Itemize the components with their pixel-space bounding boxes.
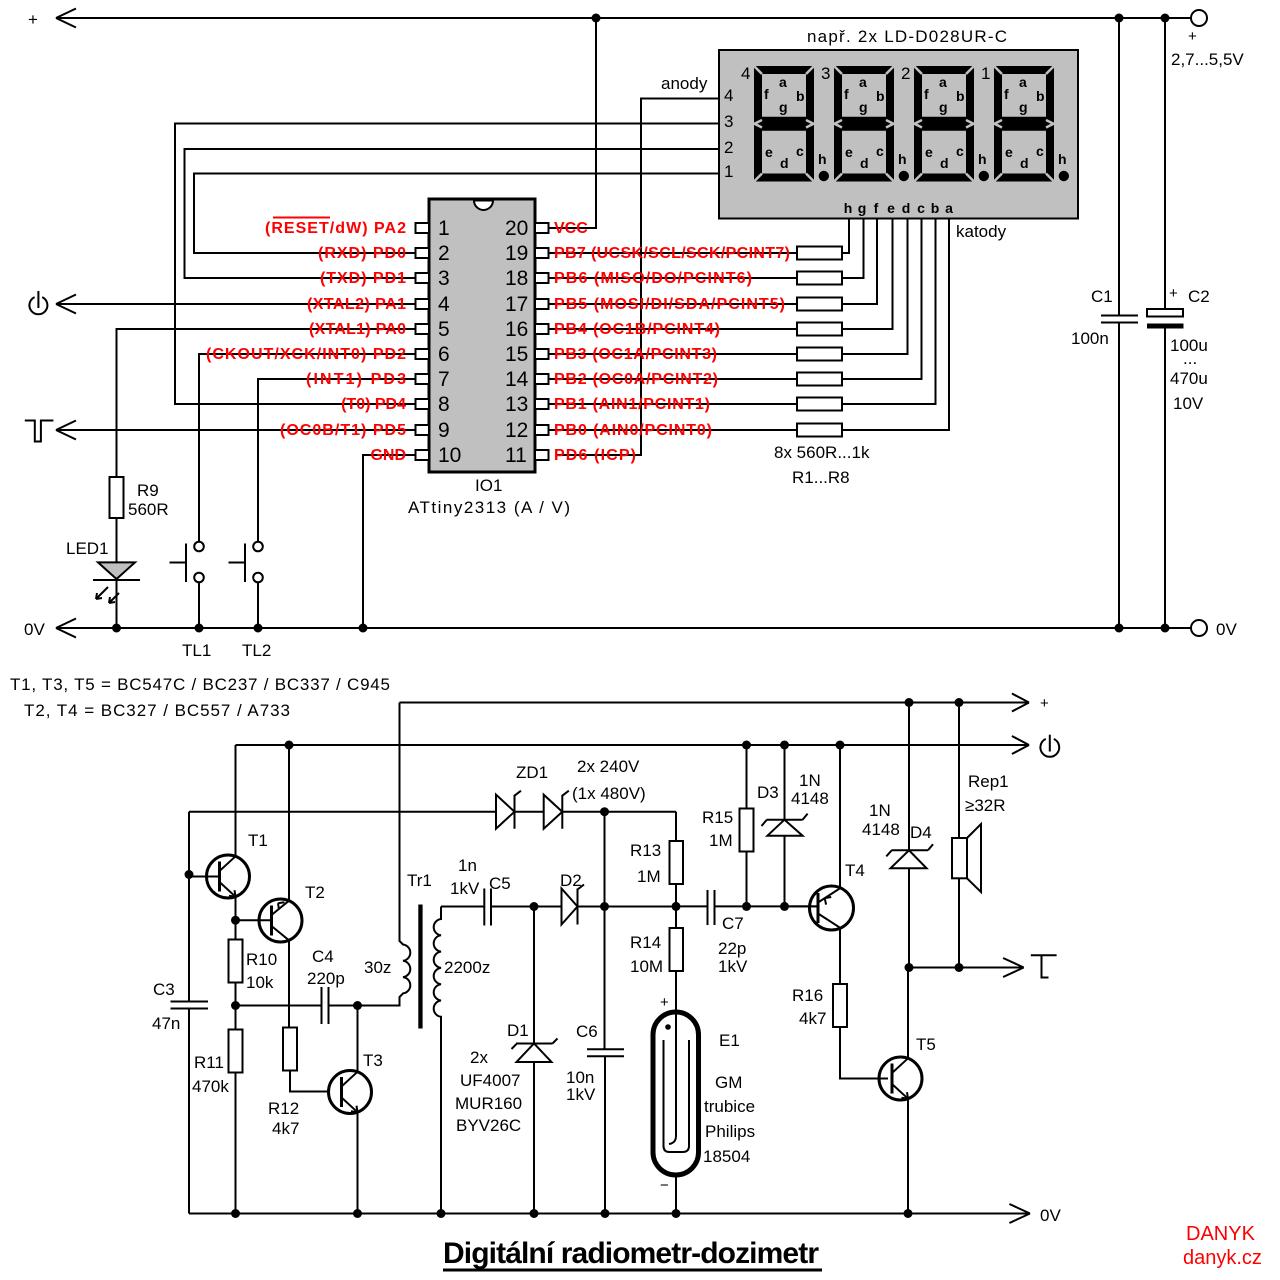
svg-text:h: h <box>844 200 853 216</box>
svg-text:22p: 22p <box>718 939 746 958</box>
svg-text:4148: 4148 <box>862 820 900 839</box>
svg-text:C2: C2 <box>1188 287 1210 306</box>
wire T3 emitter <box>357 1112 359 1214</box>
svg-text:+: + <box>1169 285 1178 302</box>
GM tube E1 <box>653 971 755 1214</box>
wire ZD1 node down <box>604 812 606 907</box>
top positive rail <box>28 9 1191 30</box>
resistor R16 <box>792 984 888 1079</box>
junction D1 bottom <box>530 1209 539 1218</box>
svg-text:b: b <box>876 88 885 104</box>
red pin label 11 <box>554 447 636 464</box>
svg-text:trubice: trubice <box>704 1097 755 1116</box>
standby symbol <box>29 291 47 314</box>
red pin label 3 <box>320 270 406 287</box>
7seg digit 2 <box>901 64 989 182</box>
svg-text:PB5 (MOSI/DI/SDA/PCINT5): PB5 (MOSI/DI/SDA/PCINT5) <box>554 296 785 313</box>
resistor R13 <box>630 812 683 907</box>
svg-text:+: + <box>1188 28 1197 45</box>
transistor T1 <box>189 831 268 898</box>
svg-text:10: 10 <box>438 444 461 467</box>
7seg digit 3 <box>821 64 909 182</box>
resistor R14 <box>630 906 683 1012</box>
svg-text:PD6 (ICP): PD6 (ICP) <box>554 447 636 464</box>
diode D2 <box>560 871 605 925</box>
svg-text:1n: 1n <box>458 856 477 875</box>
svg-text:LED1: LED1 <box>66 539 109 558</box>
svg-text:18: 18 <box>505 267 528 290</box>
junction C6 bottom <box>601 1209 610 1218</box>
svg-text:e: e <box>765 144 773 160</box>
zener ZD1 <box>496 757 646 829</box>
resistor R11 <box>192 1006 243 1214</box>
wire T4 collector to R16 <box>839 928 841 985</box>
svg-text:12: 12 <box>505 419 528 442</box>
resistor R10 <box>229 920 278 1005</box>
red pin label 8 <box>341 396 406 413</box>
svg-text:C4: C4 <box>312 947 334 966</box>
junction R10 bottom <box>231 1001 240 1010</box>
junction T3 emitter bottom <box>353 1209 362 1218</box>
svg-text:f: f <box>844 86 849 102</box>
svg-text:b: b <box>1036 88 1045 104</box>
svg-text:T4: T4 <box>845 861 865 880</box>
svg-text:PB2 (OC0A/PCINT2): PB2 (OC0A/PCINT2) <box>554 371 718 388</box>
svg-text:h: h <box>1058 151 1067 167</box>
junction Tr secondary bottom <box>437 1209 446 1218</box>
wire T4 emitter to rail <box>839 745 841 889</box>
transistor T5 <box>879 1035 936 1100</box>
svg-text:2x: 2x <box>470 1048 488 1067</box>
svg-text:MUR160: MUR160 <box>455 1094 522 1113</box>
junction TL2 0V <box>254 624 263 633</box>
svg-text:b: b <box>931 200 940 216</box>
svg-text:Rep1: Rep1 <box>968 772 1009 791</box>
svg-text:220p: 220p <box>307 969 345 988</box>
svg-text:3: 3 <box>438 267 450 290</box>
svg-text:470u: 470u <box>1170 369 1208 388</box>
wire T5 emitter down <box>907 1099 909 1214</box>
svg-text:R10: R10 <box>246 950 277 969</box>
red pin label 12 <box>554 422 712 439</box>
katody label <box>956 222 1007 241</box>
svg-text:h: h <box>818 151 827 167</box>
svg-text:4: 4 <box>741 64 750 83</box>
svg-text:T2, T4 = BC327 / BC557 / A733: T2, T4 = BC327 / BC557 / A733 <box>24 701 290 720</box>
junction T1 emitter T2 base <box>231 916 240 925</box>
svg-text:GM: GM <box>715 1073 742 1092</box>
svg-text:danyk.cz: danyk.cz <box>1183 1247 1262 1269</box>
junction T1 base <box>185 870 194 879</box>
svg-text:4k7: 4k7 <box>272 1119 299 1138</box>
7seg digit 1 <box>981 64 1069 182</box>
wire secondary to C5 <box>441 906 484 908</box>
svg-text:3: 3 <box>821 64 830 83</box>
red pin label 17 <box>554 296 785 313</box>
transistor T2 <box>236 883 325 942</box>
resistor R6 <box>548 219 922 386</box>
red pin label 2 <box>318 245 406 262</box>
svg-text:a: a <box>945 200 953 216</box>
svg-text:DANYK: DANYK <box>1186 1223 1256 1245</box>
capacitor C7 <box>708 890 748 976</box>
diode D1 <box>455 907 558 1214</box>
zener D4 <box>862 703 933 968</box>
wire anody 2 <box>185 149 720 278</box>
svg-text:2: 2 <box>724 138 733 157</box>
red pin label 1 with RESET overline <box>265 218 406 238</box>
svg-text:(INT1) PD3: (INT1) PD3 <box>306 371 406 388</box>
wire anody 4 <box>556 99 719 456</box>
svg-text:C6: C6 <box>576 1022 598 1041</box>
wire anody 3 <box>175 124 719 405</box>
svg-text:e: e <box>1005 144 1013 160</box>
svg-text:16: 16 <box>505 318 528 341</box>
svg-text:R12: R12 <box>268 1099 299 1118</box>
IC IO1 body <box>408 199 570 517</box>
svg-text:(XTAL2) PA1: (XTAL2) PA1 <box>307 296 406 313</box>
junction GND 0V <box>359 624 368 633</box>
pulse symbol right <box>1031 955 1057 977</box>
svg-text:5: 5 <box>438 318 450 341</box>
resistor R5 <box>548 219 908 361</box>
svg-text:1kV: 1kV <box>718 957 748 976</box>
svg-text:17: 17 <box>505 293 528 316</box>
svg-text:h: h <box>978 151 987 167</box>
svg-text:20: 20 <box>505 217 528 240</box>
svg-text:10M: 10M <box>630 957 663 976</box>
svg-text:IO1: IO1 <box>475 476 502 495</box>
wire T2 collector to R12 <box>288 940 290 1028</box>
svg-text:11: 11 <box>505 444 527 467</box>
svg-text:R11: R11 <box>194 1053 224 1072</box>
svg-text:1N: 1N <box>799 771 821 790</box>
svg-text:ZD1: ZD1 <box>516 763 548 782</box>
svg-text:R1...R8: R1...R8 <box>792 468 850 487</box>
svg-text:VCC: VCC <box>554 220 588 237</box>
wire VCC pin20 to top rail <box>548 18 596 228</box>
wire D2 node to R13 node <box>605 906 677 908</box>
svg-text:6: 6 <box>438 343 450 366</box>
resistor R15 <box>702 745 754 906</box>
wire pin10 GND to 0V <box>363 455 416 628</box>
svg-text:PB4 (OC1B/PCINT4): PB4 (OC1B/PCINT4) <box>554 321 720 338</box>
svg-text:c: c <box>796 143 804 159</box>
svg-text:−: − <box>660 1177 669 1194</box>
red pin label 6 <box>206 346 406 363</box>
resistor R9 <box>110 477 169 519</box>
svg-text:...: ... <box>1183 349 1197 368</box>
junction speaker output <box>955 963 964 972</box>
transistor equivalents text <box>10 675 390 720</box>
bottom + rail <box>400 694 1050 713</box>
svg-text:f: f <box>924 86 929 102</box>
red pin label 13 <box>554 396 710 413</box>
svg-text:1kV: 1kV <box>450 879 480 898</box>
svg-text:10V: 10V <box>1173 394 1204 413</box>
svg-text:1M: 1M <box>709 831 733 850</box>
svg-text:PB0 (AIN0/PCINT0): PB0 (AIN0/PCINT0) <box>554 422 712 439</box>
bottom 0V rail <box>189 1204 1061 1225</box>
svg-text:8: 8 <box>438 393 450 416</box>
svg-text:PB1 (AIN1/PCINT1): PB1 (AIN1/PCINT1) <box>554 396 710 413</box>
svg-text:C1: C1 <box>1091 287 1113 306</box>
svg-text:T1, T3, T5 = BC547C / BC237 /: T1, T3, T5 = BC547C / BC237 / BC337 / C9… <box>10 675 390 694</box>
display module LD-D028UR-C <box>719 50 1078 219</box>
wire pin7 to TL2 <box>258 379 416 542</box>
wire T1 collector to rail <box>235 745 237 856</box>
svg-text:0V: 0V <box>1040 1206 1061 1225</box>
resistor R3 <box>548 219 877 311</box>
svg-text:c: c <box>1036 143 1044 159</box>
red pin label 18 <box>554 270 752 287</box>
svg-text:h: h <box>898 151 907 167</box>
svg-text:např. 2x LD-D028UR-C: např. 2x LD-D028UR-C <box>807 27 1007 46</box>
wire T2 emitter to rail <box>288 745 290 901</box>
svg-text:15: 15 <box>505 343 528 366</box>
svg-text:R13: R13 <box>630 841 661 860</box>
svg-text:g: g <box>858 200 867 216</box>
junction C4 right <box>353 1001 362 1010</box>
junction T2 collector rail <box>285 741 294 750</box>
junction VCC on top rail <box>592 14 601 23</box>
svg-text:4: 4 <box>438 293 450 316</box>
svg-text:18504: 18504 <box>703 1147 750 1166</box>
svg-text:7: 7 <box>438 368 450 391</box>
junction C1 top rail <box>1115 14 1124 23</box>
svg-text:Tr1: Tr1 <box>407 871 432 890</box>
svg-text:T2: T2 <box>305 883 325 902</box>
svg-text:9: 9 <box>438 419 450 442</box>
svg-text:D4: D4 <box>910 823 932 842</box>
LED1 <box>66 518 140 628</box>
red pin label 9 <box>280 422 406 439</box>
svg-text:d: d <box>940 155 949 171</box>
junction R11 bottom <box>231 1209 240 1218</box>
red pin label 15 <box>554 346 717 363</box>
red pin label 7 <box>306 371 406 388</box>
svg-text:470k: 470k <box>192 1077 229 1096</box>
wire pin6 to TL1 <box>199 354 416 542</box>
output pulse row <box>909 958 1024 977</box>
red pin label 19 <box>554 245 790 262</box>
junction C2 top rail <box>1161 14 1170 23</box>
svg-text:a: a <box>859 74 867 90</box>
svg-text:e: e <box>887 200 895 216</box>
zener D3 <box>757 745 829 906</box>
svg-text:R14: R14 <box>630 933 661 952</box>
svg-text:PB7 (UCSK/SCL/SCK/PCINT7): PB7 (UCSK/SCL/SCK/PCINT7) <box>554 245 790 262</box>
svg-text:PB3 (OC1A/PCINT3): PB3 (OC1A/PCINT3) <box>554 346 717 363</box>
junction T4 emitter rail <box>836 741 845 750</box>
svg-text:c: c <box>917 200 925 216</box>
wire pin9 T1 output to pulse arrow <box>56 421 416 440</box>
svg-text:ATtiny2313 (A / V): ATtiny2313 (A / V) <box>408 498 570 517</box>
svg-text:E1: E1 <box>719 1031 740 1050</box>
svg-text:R16: R16 <box>792 986 823 1005</box>
svg-text:+: + <box>1040 695 1049 712</box>
svg-text:anody: anody <box>661 74 708 93</box>
wire T5 collector up <box>907 968 909 1059</box>
transistor T4 <box>785 861 865 930</box>
junction T5 emitter bottom <box>904 1209 913 1218</box>
svg-text:8x 560R...1k: 8x 560R...1k <box>774 443 870 462</box>
svg-text:katody: katody <box>956 222 1007 241</box>
svg-text:f: f <box>764 86 769 102</box>
svg-text:4148: 4148 <box>791 789 829 808</box>
HV line <box>189 811 676 813</box>
red pin label 20 <box>554 220 588 237</box>
svg-text:b: b <box>796 88 805 104</box>
red pin label 14 <box>554 371 718 388</box>
svg-text:c: c <box>956 143 964 159</box>
svg-text:1: 1 <box>438 217 450 240</box>
resistor R8 <box>548 219 949 437</box>
junction speaker + rail <box>955 698 964 707</box>
svg-text:d: d <box>860 155 869 171</box>
svg-text:(OC0B/T1) PD5: (OC0B/T1) PD5 <box>280 422 406 439</box>
svg-text:(RESET/dW) PA2: (RESET/dW) PA2 <box>265 220 406 237</box>
pulse symbol left <box>25 421 54 442</box>
svg-text:0V: 0V <box>1216 620 1237 639</box>
svg-text:PB6 (MISO/DO/PCINT6): PB6 (MISO/DO/PCINT6) <box>554 270 752 287</box>
svg-text:D2: D2 <box>560 871 582 890</box>
capacitor C2 electrolytic <box>1147 18 1210 628</box>
junction C7 R15 <box>742 902 751 911</box>
red pin label 4 <box>307 296 406 313</box>
svg-text:a: a <box>1019 74 1027 90</box>
junction E1 bottom <box>672 1209 681 1218</box>
capacitor C3 <box>152 980 208 1214</box>
junction ZD1 output <box>600 807 609 816</box>
svg-text:Digitální radiometr-dozimetr: Digitální radiometr-dozimetr <box>443 1237 819 1270</box>
resistor network label <box>774 443 870 487</box>
svg-text:(1x 480V): (1x 480V) <box>572 784 646 803</box>
svg-text:4k7: 4k7 <box>799 1009 826 1028</box>
junction D2 output <box>600 902 609 911</box>
svg-text:b: b <box>956 88 965 104</box>
svg-text:(RXD) PD0: (RXD) PD0 <box>318 245 406 262</box>
svg-text:47n: 47n <box>152 1014 180 1033</box>
0V rail top section <box>24 619 1191 640</box>
terminal + supply <box>1171 10 1244 69</box>
svg-text:1: 1 <box>724 162 733 181</box>
svg-text:2200z: 2200z <box>444 958 490 977</box>
svg-text:R15: R15 <box>702 808 733 827</box>
svg-text:+: + <box>660 994 669 1011</box>
svg-text:e: e <box>845 144 853 160</box>
bottom standby rail <box>236 736 1030 754</box>
resistor R4 <box>548 219 893 336</box>
svg-text:Philips: Philips <box>705 1122 755 1141</box>
resistor R12 <box>268 1028 329 1139</box>
svg-text:1N: 1N <box>869 801 891 820</box>
svg-text:2: 2 <box>901 64 910 83</box>
resistor R7 <box>548 219 936 411</box>
resistor R2 <box>548 219 864 285</box>
svg-text:g: g <box>859 99 868 115</box>
capacitor C1 <box>1071 18 1138 628</box>
wire D2 node down to C6 <box>604 907 606 1050</box>
title <box>443 1237 822 1270</box>
svg-text:g: g <box>939 99 948 115</box>
standby symbol bottom <box>1040 735 1059 757</box>
display anode pin numbers <box>724 86 733 181</box>
svg-text:BYV26C: BYV26C <box>456 1116 521 1135</box>
svg-text:13: 13 <box>505 393 528 416</box>
wire pin4 XTAL2 to standby arrow <box>56 295 416 314</box>
capacitor C5 <box>450 856 534 926</box>
author <box>1183 1223 1262 1269</box>
svg-text:≥32R: ≥32R <box>965 796 1006 815</box>
IC pin numbers <box>438 217 529 467</box>
svg-text:T5: T5 <box>916 1035 936 1054</box>
transformer Tr1 <box>358 703 491 1214</box>
svg-text:C3: C3 <box>153 980 175 999</box>
anody label <box>661 74 708 93</box>
svg-text:1kV: 1kV <box>566 1085 596 1104</box>
svg-text:(TXD) PD1: (TXD) PD1 <box>320 270 406 287</box>
svg-text:30z: 30z <box>364 958 391 977</box>
wire T1 emitter <box>235 896 237 920</box>
wire C3 node to C4 <box>236 1005 322 1007</box>
pushbutton TL1 <box>170 542 212 660</box>
red pin label 16 <box>554 321 720 338</box>
svg-text:TL2: TL2 <box>242 641 271 660</box>
svg-text:c: c <box>876 143 884 159</box>
red pin label 5 <box>309 321 406 338</box>
svg-text:g: g <box>1019 99 1028 115</box>
junction D4 output <box>905 963 914 972</box>
svg-text:4: 4 <box>724 86 733 105</box>
svg-text:d: d <box>1020 155 1029 171</box>
svg-text:(CKOUT/XCK/INT0) PD2: (CKOUT/XCK/INT0) PD2 <box>206 346 406 363</box>
pushbutton TL2 <box>229 542 272 660</box>
capacitor C6 <box>566 1022 624 1214</box>
transistor T3 <box>329 1051 383 1114</box>
junction D4 + rail <box>905 698 914 707</box>
svg-text:f: f <box>874 200 879 216</box>
wire T3 collector <box>357 1006 359 1072</box>
svg-text:T3: T3 <box>363 1051 383 1070</box>
junction LED 0V <box>112 624 121 633</box>
svg-text:560R: 560R <box>128 500 169 519</box>
red pin label 10 <box>370 447 406 464</box>
svg-text:D1: D1 <box>507 1021 529 1040</box>
svg-text:a: a <box>939 74 947 90</box>
svg-text:3: 3 <box>724 112 733 131</box>
svg-text:1M: 1M <box>637 867 661 886</box>
svg-text:C7: C7 <box>722 914 744 933</box>
svg-text:1: 1 <box>981 64 990 83</box>
wire anody 1 <box>194 174 719 254</box>
oscillator left column wire <box>188 812 190 1001</box>
svg-text:f: f <box>1004 86 1009 102</box>
junction TL1 0V <box>195 624 204 633</box>
junction R15 rail <box>742 741 751 750</box>
svg-text:2,7...5,5V: 2,7...5,5V <box>1171 50 1244 69</box>
svg-text:19: 19 <box>505 242 528 265</box>
junction R13 R14 C7 <box>672 902 681 911</box>
terminal 0V <box>1191 620 1237 639</box>
svg-text:+: + <box>28 10 38 29</box>
wire pin5 XTAL1 to LED column <box>117 329 417 477</box>
wire C7 row <box>676 905 818 907</box>
svg-text:0V: 0V <box>24 620 45 639</box>
speaker Rep1 <box>952 703 1009 968</box>
svg-text:GND: GND <box>370 447 406 464</box>
IC pin stubs left <box>416 223 430 460</box>
